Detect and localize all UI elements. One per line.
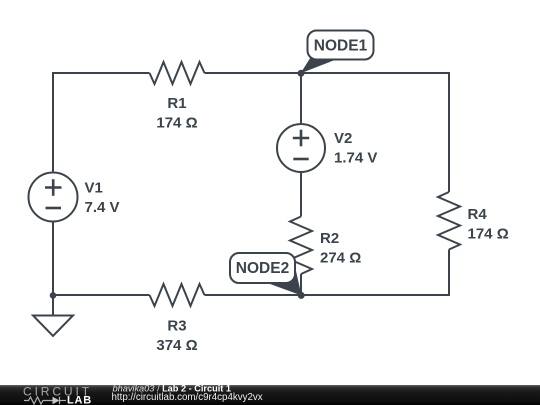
svg-text:V1: V1 — [85, 180, 103, 197]
svg-text:174 Ω: 174 Ω — [468, 226, 509, 243]
svg-text:274 Ω: 274 Ω — [320, 250, 361, 267]
svg-text:http://circuitlab.com/c9r4cp4k: http://circuitlab.com/c9r4cp4kvy2vx — [112, 392, 263, 403]
svg-text:R1: R1 — [167, 95, 186, 112]
svg-text:NODE1: NODE1 — [314, 38, 368, 55]
svg-text:7.4 V: 7.4 V — [85, 199, 120, 216]
svg-text:NODE2: NODE2 — [236, 260, 289, 277]
svg-text:R4: R4 — [468, 206, 488, 223]
svg-text:R3: R3 — [167, 318, 186, 335]
svg-text:R2: R2 — [320, 230, 339, 247]
svg-text:LAB: LAB — [67, 395, 92, 405]
svg-text:374 Ω: 374 Ω — [156, 337, 197, 354]
svg-text:V2: V2 — [334, 130, 352, 147]
svg-text:1.74 V: 1.74 V — [334, 150, 377, 167]
svg-text:174 Ω: 174 Ω — [156, 115, 197, 132]
